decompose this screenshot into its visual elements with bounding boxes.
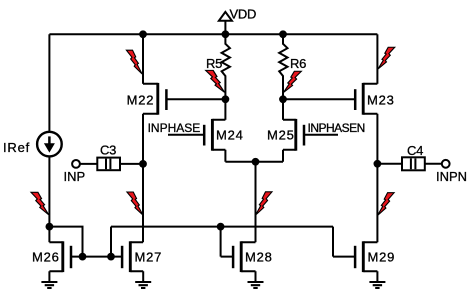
- svg-text:M23: M23: [367, 92, 395, 107]
- svg-text:R6: R6: [290, 56, 306, 71]
- svg-text:M25: M25: [267, 128, 295, 143]
- svg-text:VDD: VDD: [230, 7, 257, 22]
- svg-text:C4: C4: [407, 143, 423, 158]
- svg-text:C3: C3: [100, 143, 116, 158]
- svg-text:INPN: INPN: [436, 169, 467, 184]
- svg-text:M28: M28: [245, 249, 273, 264]
- svg-text:M29: M29: [368, 249, 396, 264]
- svg-text:M22: M22: [127, 92, 155, 107]
- svg-text:M24: M24: [216, 128, 244, 143]
- svg-text:M26: M26: [32, 249, 60, 264]
- svg-text:R5: R5: [206, 56, 222, 71]
- svg-text:INPHASEN: INPHASEN: [308, 121, 365, 135]
- svg-text:IRef: IRef: [3, 140, 30, 155]
- svg-text:M27: M27: [135, 249, 163, 264]
- svg-text:INPHASE: INPHASE: [148, 121, 201, 135]
- svg-text:INP: INP: [64, 169, 86, 184]
